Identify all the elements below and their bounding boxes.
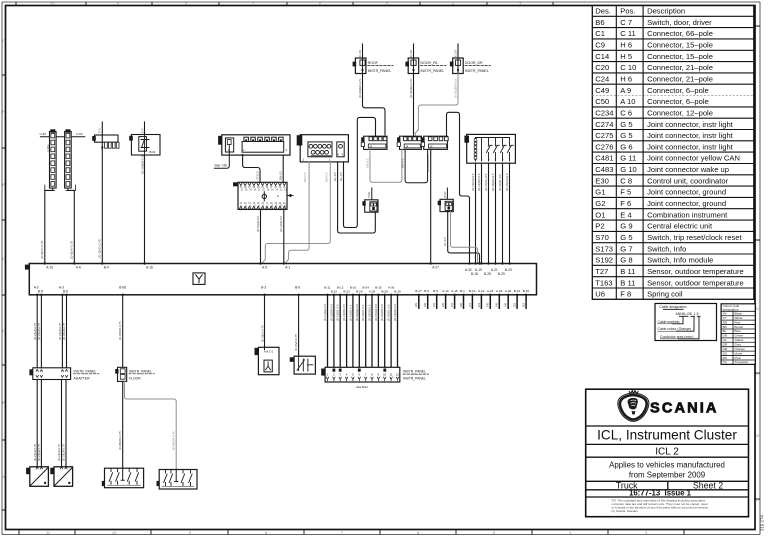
wire DOOR_PA to C275 — [409, 74, 414, 136]
svg-text:J31: J31 — [432, 302, 436, 307]
svg-text:J44: J44 — [477, 302, 481, 307]
svg-text:B-18: B-18 — [471, 272, 478, 276]
svg-text:E: E — [2, 182, 5, 187]
svg-text:O1: O1 — [595, 210, 605, 219]
svg-text:Central electric unit: Central electric unit — [647, 222, 713, 231]
svg-text:C1: C1 — [595, 29, 605, 38]
legend colour code table — [721, 304, 755, 365]
svg-text:A-6: A-6 — [76, 266, 81, 270]
svg-text:(O-5)GN-0.5: (O-5)GN-0.5 — [256, 216, 260, 232]
svg-text:B-17: B-17 — [415, 289, 422, 293]
svg-text:INSTR_PANEL: INSTR_PANEL — [403, 377, 426, 381]
svg-text:Joint connector, ground: Joint connector, ground — [647, 199, 726, 208]
svg-text:G 9: G 9 — [620, 222, 632, 231]
svg-text:(O-27)GL-0.5: (O-27)GL-0.5 — [426, 154, 430, 172]
svg-text:B-26: B-26 — [382, 289, 389, 293]
svg-text:D: D — [2, 256, 5, 261]
svg-text:(O-25)SV-0.5: (O-25)SV-0.5 — [368, 304, 372, 321]
O1 top pins — [44, 262, 440, 269]
svg-text:A-24: A-24 — [496, 289, 503, 293]
svg-text:J53: J53 — [521, 302, 525, 307]
svg-text:C 10: C 10 — [620, 63, 636, 72]
svg-text:(O-22)BN-0.5: (O-22)BN-0.5 — [329, 304, 333, 321]
svg-text:Connector, 21–pole: Connector, 21–pole — [647, 75, 713, 84]
svg-text:Applies to vehicles manufactur: Applies to vehicles manufactured — [609, 461, 725, 470]
O1 bottom right stub pins — [414, 289, 529, 308]
wire C276 to O1 pin A-27 — [426, 149, 431, 263]
svg-text:D: D — [756, 306, 759, 311]
O1 bottom pins 12-group — [324, 286, 401, 296]
wire C483 to O1 (grey) — [451, 212, 478, 264]
svg-text:(c) Scania, Sweden: (c) Scania, Sweden — [612, 509, 639, 513]
svg-text:(O-24)VT-0.5: (O-24)VT-0.5 — [361, 304, 365, 321]
svg-text:(O-1)GN-0.5: (O-1)GN-0.5 — [279, 216, 283, 232]
svg-text:C274: C274 — [595, 120, 613, 129]
svg-text:B-13: B-13 — [514, 289, 521, 293]
svg-text:FLOOR: FLOOR — [129, 376, 141, 380]
svg-text:B-5: B-5 — [38, 289, 43, 293]
svg-text:GR: GR — [723, 343, 728, 347]
svg-text:A-15: A-15 — [451, 289, 458, 293]
svg-text:C481: C481 — [595, 154, 613, 163]
svg-text:310 274: 310 274 — [760, 515, 765, 531]
svg-text:A-13: A-13 — [442, 289, 449, 293]
svg-text:ADAPTER: ADAPTER — [74, 376, 91, 380]
svg-text:GL-0.5: GL-0.5 — [333, 172, 337, 181]
svg-text:(O-2)GR-0.75: (O-2)GR-0.75 — [57, 443, 61, 461]
svg-text:Pink: Pink — [735, 356, 741, 360]
svg-text:G 5: G 5 — [620, 233, 632, 242]
svg-text:Switch, Info: Switch, Info — [647, 244, 686, 253]
svg-text:A: A — [756, 497, 759, 502]
svg-text:C-50: C-50 — [40, 132, 47, 136]
frame grid letters right — [756, 306, 759, 502]
svg-text:F 8: F 8 — [620, 290, 631, 299]
svg-text:J41: J41 — [468, 302, 472, 307]
boundary connector DOOR_DR/INSTR_PANEL — [450, 44, 491, 74]
O1 symbol Y — [193, 273, 205, 285]
svg-text:(O-19)RD-0.5: (O-19)RD-0.5 — [393, 304, 397, 321]
wire C20 to C481 — [333, 162, 375, 233]
svg-text:C276: C276 — [595, 142, 613, 151]
svg-text:A-16: A-16 — [146, 266, 153, 270]
connector C234 — [464, 134, 515, 163]
switch S70 — [92, 122, 119, 150]
svg-text:C-7: C-7 — [140, 128, 144, 133]
svg-text:B-4: B-4 — [104, 266, 109, 270]
svg-text:B: B — [756, 433, 759, 438]
svg-text:C14: C14 — [595, 52, 609, 61]
svg-text:11: 11 — [390, 372, 393, 376]
wire B6 to O1 pin A-16 — [140, 155, 144, 264]
svg-text:ANNN–GB 1.5: ANNN–GB 1.5 — [676, 312, 699, 316]
svg-text:B-20: B-20 — [356, 289, 363, 293]
svg-text:B-29: B-29 — [498, 272, 505, 276]
legend cable designation box — [655, 304, 717, 341]
svg-text:C-29: C-29 — [358, 50, 362, 57]
wire C1 pin1 to E30 — [242, 154, 261, 182]
svg-text:GL: GL — [723, 338, 727, 342]
svg-text:(O-08)OR-0.75: (O-08)OR-0.75 — [118, 321, 122, 340]
svg-text:B-9: B-9 — [295, 286, 300, 290]
switch block S192a — [102, 468, 144, 488]
connector housing INSTR_PANEL/ADAPTER — [29, 368, 99, 381]
svg-text:(O-11)GR-0.5: (O-11)GR-0.5 — [323, 304, 327, 321]
svg-text:Joint connector yellow CAN: Joint connector yellow CAN — [647, 154, 740, 163]
svg-text:BN-0.5: BN-0.5 — [279, 171, 283, 180]
svg-text:Connector, 15–pole: Connector, 15–pole — [647, 41, 713, 50]
svg-text:Cable designation: Cable designation — [659, 305, 686, 309]
wire C234 pin to O1 x=481.5 — [477, 163, 482, 263]
svg-text:16:77-13 Issue 1: 16:77-13 Issue 1 — [629, 489, 692, 498]
svg-text:C-5: C-5 — [98, 128, 102, 133]
frame tick marks right — [755, 26, 760, 499]
svg-text:10: 10 — [112, 530, 117, 535]
svg-text:C20: C20 — [595, 63, 609, 72]
svg-text:(O-26)GN-0.5: (O-26)GN-0.5 — [505, 173, 509, 191]
svg-text:A-1: A-1 — [285, 266, 290, 270]
wire O1 to floor connector — [118, 295, 123, 368]
svg-text:A-5: A-5 — [262, 266, 267, 270]
svg-text:GR-0.5: GR-0.5 — [303, 172, 307, 182]
wire C234 pin to O1 x=495.5 — [491, 163, 496, 263]
svg-text:A-8 C-1: A-8 C-1 — [264, 349, 274, 353]
joint connector C276 — [421, 136, 448, 149]
svg-text:H 6: H 6 — [620, 41, 632, 50]
wires O1 to adapter (left pairs) — [33, 295, 67, 368]
svg-text:B-01: B-01 — [150, 150, 156, 154]
wire C234 pin to O1 x=475.5 — [471, 163, 476, 263]
svg-text:Control unit, coordinator: Control unit, coordinator — [647, 176, 729, 185]
svg-text:C9: C9 — [595, 41, 605, 50]
svg-text:F 5: F 5 — [620, 188, 631, 197]
wire E30 to O1 pin A-5 — [256, 209, 261, 263]
wire C274 to C275 (grey U) — [365, 149, 402, 182]
svg-text:VO: VO — [723, 351, 728, 355]
svg-text:C50: C50 — [595, 97, 609, 106]
svg-text:RD: RD — [723, 320, 728, 324]
svg-text:BL: BL — [723, 329, 727, 333]
svg-text:GR-0.5: GR-0.5 — [365, 158, 369, 168]
svg-text:J29: J29 — [414, 302, 418, 307]
svg-text:Turquoise: Turquoise — [735, 360, 749, 364]
joint connector C274 — [361, 136, 387, 149]
svg-text:(O-14)BN-0.5: (O-14)BN-0.5 — [477, 173, 481, 191]
svg-text:(O-30)GR-0.5: (O-30)GR-0.5 — [409, 79, 413, 98]
svg-text:GR-0.5: GR-0.5 — [324, 172, 328, 182]
svg-text:C275: C275 — [595, 131, 613, 140]
switch S173 — [290, 356, 316, 374]
svg-text:G 5: G 5 — [620, 131, 632, 140]
svg-text:RS: RS — [723, 356, 727, 360]
svg-text:A-25: A-25 — [369, 289, 376, 293]
wire C483 to O1 (dark) — [443, 212, 479, 264]
svg-text:ICL 2: ICL 2 — [655, 446, 679, 457]
svg-text:S70: S70 — [595, 233, 609, 242]
svg-text:from September 2009: from September 2009 — [629, 471, 706, 480]
wires O1 to C:instr panel 12-pole — [323, 295, 398, 368]
svg-text:INSTR_PANEL: INSTR_PANEL — [403, 370, 426, 374]
frame grid numbers top — [50, 1, 522, 6]
svg-text:Connector, 21–pole: Connector, 21–pole — [647, 63, 713, 72]
svg-text:B-19: B-19 — [394, 289, 401, 293]
frame grid letters left — [2, 38, 5, 479]
svg-text:Green: Green — [735, 334, 744, 338]
svg-text:(O-2)GR-0.75: (O-2)GR-0.75 — [37, 443, 41, 461]
svg-text:C49: C49 — [595, 86, 609, 95]
svg-text:3aa BH3: 3aa BH3 — [356, 385, 368, 389]
svg-text:Spring coil: Spring coil — [647, 290, 683, 299]
svg-text:G2: G2 — [595, 199, 605, 208]
svg-text:A: A — [277, 194, 279, 198]
svg-text:Joint connector, instr light: Joint connector, instr light — [647, 131, 734, 140]
svg-text:Joint connector, ground: Joint connector, ground — [647, 188, 726, 197]
wire C20 to E30 grey A — [262, 162, 331, 264]
svg-text:(O-12)GR-0.5: (O-12)GR-0.5 — [471, 173, 475, 191]
svg-text:A: A — [2, 474, 5, 479]
svg-text:B6: B6 — [595, 18, 604, 27]
frame tick marks top — [16, 2, 553, 6]
svg-text:Sensor, outdoor temperature: Sensor, outdoor temperature — [647, 278, 744, 287]
svg-text:SCANIA: SCANIA — [650, 401, 719, 417]
svg-text:C 6: C 6 — [620, 109, 632, 118]
svg-text:Sheet 2: Sheet 2 — [693, 480, 723, 490]
svg-text:WUP: WUP — [443, 191, 447, 198]
connector 12-pole INSTR_PANEL — [321, 367, 428, 389]
svg-text:A-27: A-27 — [432, 266, 439, 270]
wire C234 pin to O1 x=488.5 — [484, 163, 489, 263]
frame tick marks left — [2, 75, 6, 510]
connector C24/C1 block — [218, 135, 290, 155]
svg-text:ICL, Instrument Cluster: ICL, Instrument Cluster — [597, 428, 737, 443]
component table — [592, 6, 754, 300]
svg-text:Orange: Orange — [735, 347, 746, 351]
joint connector C275 — [397, 136, 421, 149]
svg-text:B-3: B-3 — [261, 286, 266, 290]
reference See +39 — [214, 152, 229, 168]
scania griffin logo — [618, 391, 649, 422]
svg-text:C: C — [2, 328, 5, 333]
svg-text:Yellow: Yellow — [735, 338, 745, 342]
svg-text:B-6: B-6 — [63, 289, 68, 293]
wire ROOF to C274 — [358, 74, 385, 135]
svg-text:(O-17)GL-0.5: (O-17)GL-0.5 — [484, 173, 488, 191]
connector INSTR_PANEL/FLOOR — [115, 367, 154, 381]
svg-text:A-19: A-19 — [475, 268, 482, 272]
svg-text:GL-0.5: GL-0.5 — [443, 237, 447, 246]
svg-text:(O-24)BL-0.5: (O-24)BL-0.5 — [498, 174, 502, 191]
svg-text:G: G — [2, 38, 5, 43]
svg-text:(O-20)GN-0.5: (O-20)GN-0.5 — [355, 303, 359, 321]
O1 bottom pins — [34, 286, 301, 296]
svg-text:C-29: C-29 — [454, 50, 458, 57]
svg-text:Joint connector, instr light: Joint connector, instr light — [647, 120, 734, 129]
svg-text:B-22: B-22 — [331, 289, 338, 293]
boundary connector DOOR_PA/INSTR_PANEL — [405, 44, 446, 74]
wire C20 over C274 — [339, 117, 376, 227]
wire floor to block S192a — [118, 381, 123, 468]
svg-text:J36: J36 — [441, 302, 445, 307]
svg-text:S173: S173 — [595, 244, 613, 253]
svg-text:(O-10)BL-0.5: (O-10)BL-0.5 — [348, 304, 352, 321]
svg-text:Des.: Des. — [595, 7, 611, 16]
svg-text:DOOR_DR: DOOR_DR — [465, 61, 483, 65]
svg-text:Combination instrument: Combination instrument — [647, 210, 728, 219]
frame grid numbers bottom — [46, 530, 648, 535]
frame tick marks bottom — [19, 530, 684, 535]
sensor T163 — [50, 467, 72, 487]
svg-text:OR: OR — [723, 347, 728, 351]
wire E30 to O1 pin A-1 — [279, 209, 284, 263]
wire C276 loop to O1 — [447, 112, 470, 263]
svg-text:GL-0.5: GL-0.5 — [339, 172, 343, 181]
svg-text:(O-26)BN-0.5: (O-26)BN-0.5 — [380, 304, 384, 321]
svg-text:C-49a: C-49a — [46, 144, 50, 152]
svg-text:Connector, 12–pole: Connector, 12–pole — [647, 109, 713, 118]
svg-text:INSTR_PANEL: INSTR_PANEL — [465, 69, 489, 73]
svg-text:INSTR_PANEL: INSTR_PANEL — [421, 69, 445, 73]
svg-text:BN: BN — [723, 325, 727, 329]
svg-text:B-23: B-23 — [343, 289, 350, 293]
svg-text:(O-3)GL-0.75: (O-3)GL-0.75 — [260, 325, 264, 342]
svg-text:J52: J52 — [513, 302, 517, 307]
O1 top right cluster pins — [465, 262, 512, 276]
connector C50 pin strip right — [65, 129, 72, 188]
svg-text:Joint connector, instr light: Joint connector, instr light — [647, 142, 734, 151]
svg-text:J46: J46 — [495, 302, 499, 307]
svg-text:(O-31)GR-0.5: (O-31)GR-0.5 — [453, 79, 457, 98]
svg-text:B-6: B-6 — [424, 289, 429, 293]
svg-text:G 11: G 11 — [620, 154, 636, 163]
svg-text:T27: T27 — [595, 267, 608, 276]
wire C1 pin2 to E30 — [279, 155, 284, 182]
svg-text:A-10: A-10 — [46, 266, 53, 270]
svg-text:J30: J30 — [423, 302, 427, 307]
svg-text:G1: G1 — [595, 188, 605, 197]
svg-text:Brown: Brown — [735, 325, 744, 329]
svg-text:J37: J37 — [450, 302, 454, 307]
boundary connector ROOF/INSTR_PANEL — [353, 44, 394, 74]
svg-text:12: 12 — [396, 372, 400, 376]
svg-text:E30: E30 — [595, 176, 609, 185]
svg-text:A-23: A-23 — [487, 289, 494, 293]
svg-text:G 8: G 8 — [620, 256, 632, 265]
svg-text:Connector, 6–pole: Connector, 6–pole — [647, 86, 709, 95]
connector C49 pin strip left — [46, 129, 56, 188]
svg-text:C 7: C 7 — [620, 18, 632, 27]
svg-text:INSTR_PANEL: INSTR_PANEL — [74, 369, 97, 373]
svg-text:Joint connector wake up: Joint connector wake up — [647, 165, 729, 174]
svg-text:Violet: Violet — [735, 351, 743, 355]
wire C49 to O1 pin A-10 — [40, 185, 55, 263]
svg-text:A 10: A 10 — [620, 97, 635, 106]
wire C20 to E30 grey B — [285, 162, 309, 264]
svg-text:A-21: A-21 — [491, 268, 498, 272]
svg-text:U6: U6 — [595, 290, 605, 299]
svg-text:(O-2)GR-0.75: (O-2)GR-0.75 — [62, 322, 66, 340]
svg-text:Switch, trip reset/clock reset: Switch, trip reset/clock reset — [647, 233, 742, 242]
svg-text:(O-5)SV-0.75: (O-5)SV-0.75 — [40, 240, 44, 259]
svg-text:B-23: B-23 — [505, 268, 512, 272]
svg-text:E 4: E 4 — [620, 210, 631, 219]
control unit E30 — [233, 182, 293, 210]
spring coil U6 — [255, 347, 280, 374]
svg-text:(O-9)VO-0.75: (O-9)VO-0.75 — [294, 334, 298, 351]
svg-text:S192: S192 — [595, 256, 613, 265]
svg-text:G 7: G 7 — [620, 244, 632, 253]
svg-text:G 6: G 6 — [620, 142, 632, 151]
svg-text:(O-18)RD-0.5: (O-18)RD-0.5 — [491, 173, 495, 191]
sensor T27 — [26, 467, 48, 487]
svg-text:Connector, 15–pole: Connector, 15–pole — [647, 52, 713, 61]
svg-text:Red: Red — [735, 320, 741, 324]
svg-text:Blue: Blue — [735, 329, 741, 333]
svg-text:B-1: B-1 — [460, 289, 465, 293]
combination instrument O1 — [25, 264, 537, 295]
svg-text:Switch, Info module: Switch, Info module — [647, 256, 713, 265]
svg-text:Sensor, outdoor temperature: Sensor, outdoor temperature — [647, 267, 744, 276]
svg-text:(O-30)GL-0.5: (O-30)GL-0.5 — [387, 304, 391, 321]
svg-text:(O-2)GR-0.75: (O-2)GR-0.75 — [62, 443, 66, 461]
svg-text:C24: C24 — [595, 75, 609, 84]
svg-text:H 5: H 5 — [620, 52, 632, 61]
svg-text:A-22: A-22 — [478, 289, 485, 293]
wire floor to block S192b (grey) — [124, 381, 176, 469]
svg-text:H 6: H 6 — [620, 75, 632, 84]
wire S70 to O1 pin B-4 — [98, 150, 103, 264]
svg-text:B-16: B-16 — [523, 289, 530, 293]
svg-text:VT-0.5: VT-0.5 — [255, 171, 259, 180]
svg-text:INSTR_PANEL: INSTR_PANEL — [368, 69, 392, 73]
connector C20 — [297, 135, 349, 162]
svg-text:CAN: CAN — [367, 192, 371, 198]
svg-text:A-29: A-29 — [505, 289, 512, 293]
svg-text:White: White — [735, 316, 743, 320]
svg-text:J45: J45 — [486, 302, 490, 307]
svg-text:T163: T163 — [595, 278, 612, 287]
svg-text:Cable colour (Orange): Cable colour (Orange) — [658, 327, 692, 331]
switch block S192b — [157, 470, 198, 490]
svg-text:See +39: See +39 — [214, 164, 227, 168]
svg-text:A 9: A 9 — [620, 86, 631, 95]
svg-text:B-14: B-14 — [469, 289, 476, 293]
svg-text:(O-2)GR-0.75: (O-2)GR-0.75 — [37, 322, 41, 340]
svg-text:Cable marking: Cable marking — [658, 320, 680, 324]
svg-text:B-08: B-08 — [119, 286, 126, 290]
svg-text:Switch, door, driver: Switch, door, driver — [647, 18, 712, 27]
wire C234 pin to O1 x=502.5 — [498, 163, 503, 263]
svg-text:10: 10 — [383, 372, 387, 376]
wire C275 to C276 (U) — [401, 149, 428, 182]
svg-text:DOOR_PA: DOOR_PA — [421, 61, 439, 65]
svg-text:J49: J49 — [504, 302, 508, 307]
svg-text:10: 10 — [50, 1, 55, 6]
svg-text:B 11: B 11 — [620, 278, 635, 287]
switch B6 — [129, 122, 160, 155]
wire C50 to O1 pin A-6 — [66, 185, 76, 263]
svg-text:(O-6)SV-0.75: (O-6)SV-0.75 — [70, 240, 74, 259]
svg-text:GN: GN — [723, 334, 728, 338]
svg-text:P2: P2 — [595, 222, 604, 231]
joint connector C483 — [438, 188, 454, 212]
svg-text:Description: Description — [647, 7, 685, 16]
wire O1 to S173 — [294, 295, 299, 356]
svg-text:Pos.: Pos. — [620, 7, 635, 16]
svg-text:B: B — [2, 400, 5, 405]
svg-text:INSTR_PANEL: INSTR_PANEL — [129, 369, 152, 373]
svg-text:ROOF: ROOF — [368, 61, 378, 65]
svg-text:C483: C483 — [595, 165, 613, 174]
